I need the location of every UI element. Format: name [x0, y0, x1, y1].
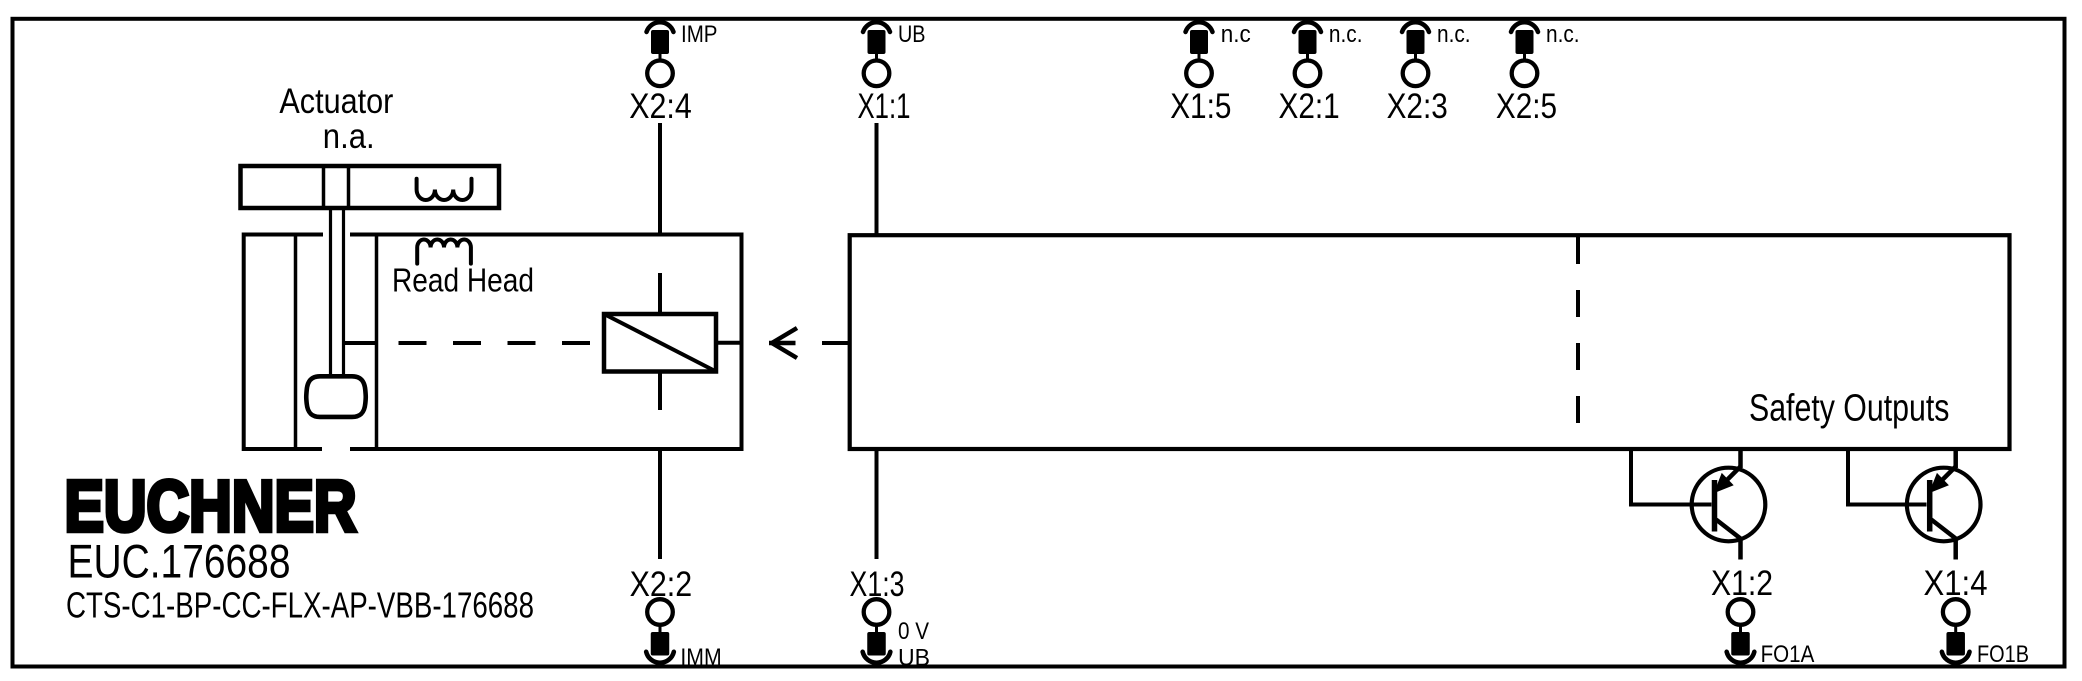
- transistor Q1 base wire: [1631, 449, 1712, 505]
- transistor Q1 emitter wire from box: [1738, 449, 1743, 468]
- coupling link shaft to partition: [344, 341, 377, 345]
- svg-text:X2:5: X2:5: [1496, 86, 1557, 126]
- svg-text:UB: UB: [898, 21, 926, 48]
- wire main box to X2:2: [658, 449, 662, 559]
- svg-text:X1:4: X1:4: [1924, 563, 1988, 603]
- svg-text:n.a.: n.a.: [323, 117, 375, 156]
- terminal X2:5 connector (n.c.): [1511, 22, 1538, 86]
- svg-text:n.c.: n.c.: [1329, 21, 1363, 48]
- svg-text:X1:5: X1:5: [1170, 86, 1231, 126]
- relay bottom stub: [658, 372, 662, 411]
- svg-text:X2:4: X2:4: [629, 86, 692, 126]
- actuator shaft: [331, 208, 344, 377]
- wire main box to X1:3: [875, 449, 879, 559]
- svg-text:FO1B: FO1B: [1977, 641, 2029, 668]
- dashed section divider: [1576, 237, 1580, 447]
- svg-text:0 V: 0 V: [898, 618, 929, 645]
- read head box: [244, 235, 742, 450]
- terminal X2:4 connector (IMP): [647, 22, 674, 86]
- svg-text:UB: UB: [898, 645, 930, 672]
- svg-text:n.c.: n.c.: [1437, 21, 1471, 48]
- transistor Q1: [1692, 467, 1766, 542]
- svg-text:Actuator: Actuator: [279, 82, 393, 121]
- svg-text:EUC.176688: EUC.176688: [68, 536, 291, 589]
- wire X2:4 down to read head box: [658, 123, 662, 235]
- terminal X1:3 connector (0V UB): [863, 599, 891, 663]
- svg-text:n.c: n.c: [1221, 21, 1251, 48]
- svg-text:FO1A: FO1A: [1761, 641, 1815, 668]
- terminal X1:2 connector (FO1A): [1727, 599, 1755, 663]
- transistor Q2 collector wire: [1953, 539, 1958, 560]
- actuator coil: [417, 179, 472, 200]
- terminal X2:3 connector (n.c.): [1402, 22, 1429, 86]
- svg-text:IMP: IMP: [681, 21, 718, 48]
- transistor Q2 emitter wire from box: [1953, 449, 1958, 468]
- svg-text:Safety Outputs: Safety Outputs: [1749, 388, 1949, 430]
- relay top stub: [658, 273, 662, 315]
- actuator tip: [306, 376, 366, 417]
- relay right stub: [716, 341, 742, 345]
- svg-text:CTS-C1-BP-CC-FLX-AP-VBB-176688: CTS-C1-BP-CC-FLX-AP-VBB-176688: [66, 585, 534, 626]
- transistor Q2: [1907, 467, 1981, 542]
- main electronics box: [850, 235, 2010, 449]
- svg-text:IMM: IMM: [680, 644, 721, 671]
- stub wire into main box: [822, 341, 850, 345]
- terminal X1:5 connector (n.c): [1186, 22, 1213, 86]
- read head coil: [417, 239, 471, 263]
- svg-text:X1:1: X1:1: [858, 86, 911, 126]
- terminal X2:2 connector (IMM): [646, 599, 674, 663]
- svg-text:X2:3: X2:3: [1387, 86, 1448, 126]
- terminal X2:1 connector (n.c.): [1294, 22, 1321, 86]
- relay / coupling element: [604, 314, 716, 372]
- terminal X1:4 connector (FO1B): [1942, 599, 1970, 663]
- terminal X1:1 connector (UB): [863, 22, 890, 86]
- actuator bar: [241, 166, 500, 208]
- transistor Q2 base wire: [1848, 449, 1927, 505]
- wire X1:1 down to main box: [875, 123, 879, 235]
- dashed coupling line: [344, 341, 604, 345]
- svg-text:X1:2: X1:2: [1711, 563, 1773, 603]
- svg-text:X2:1: X2:1: [1279, 86, 1340, 126]
- svg-text:n.c.: n.c.: [1546, 21, 1580, 48]
- signal arrow: [769, 328, 797, 358]
- svg-text:Read Head: Read Head: [392, 262, 534, 299]
- read head partition lines: [296, 235, 377, 450]
- transistor Q1 collector wire: [1738, 539, 1743, 560]
